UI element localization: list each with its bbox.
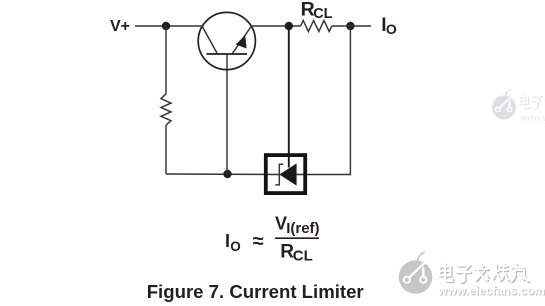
equation IO ~ VI(ref)/RCL (225, 213, 320, 264)
wire: V+ to transistor emitter lead (135, 25, 202, 27)
transistor Q1 base bar (207, 53, 248, 55)
svg-text:CL: CL (313, 6, 332, 22)
svg-text:www.elecfans.com: www.elecfans.com (437, 284, 545, 298)
wire: RCL to IO terminal (332, 25, 371, 27)
resistor RCL (horizontal zigzag) (301, 21, 332, 32)
transistor Q1 emitter lead (right diagonal) (232, 26, 252, 54)
label IO (381, 15, 397, 37)
svg-text:O: O (230, 239, 241, 254)
wire: reference lead from RCL left node down into regulator box (288, 26, 290, 168)
watermark bottom-right: chinese text 电子发烧友 (stylized strokes, embossed) (440, 264, 530, 284)
shunt regulator U1 diode triangle (279, 163, 296, 185)
resistor R1 (left bias resistor, vertical zigzag) (161, 94, 171, 125)
junction node: RCL right (346, 22, 354, 30)
watermark mid-right: chinese text (stylized strokes, lighter, clipped) (520, 95, 545, 109)
watermark mid-right: elecfans logo (small, lighter) (492, 90, 516, 120)
watermark bottom-right: www.elecfans.com (embossed) (437, 284, 545, 299)
wire: transistor base down to bottom rail (226, 54, 228, 174)
wire: left rail upper segment (165, 26, 167, 94)
label RCL (301, 0, 333, 22)
junction node at V+ rail (162, 22, 170, 30)
svg-text:O: O (386, 21, 397, 37)
junction node at transistor base / bottom rail (223, 170, 231, 178)
wire: transistor emitter to RCL (252, 25, 301, 27)
watermark bottom-right: elecfans logo (399, 253, 433, 294)
svg-text:I(ref): I(ref) (286, 220, 319, 237)
wire: bottom rail left (to reference diode cathode) (166, 173, 279, 176)
transistor Q1 circle (198, 12, 255, 69)
watermark mid-right: www.elecfans (embossed, clipped) (518, 112, 545, 123)
junction node: RCL left (285, 22, 293, 30)
wire: left rail lower segment (165, 125, 167, 174)
shunt regulator U1 box (266, 155, 305, 193)
svg-text:www.elecfans.com: www.elecfans.com (518, 112, 545, 122)
transistor Q1 emitter arrow (PNP, pointing to base) (236, 35, 247, 48)
svg-text:Figure 7. Current Limiter: Figure 7. Current Limiter (147, 281, 364, 302)
wire: bottom rail right segment and right rail up to RCL right node (297, 26, 351, 175)
transistor Q1 collector lead (left diagonal) (202, 26, 218, 54)
svg-text:≈: ≈ (253, 231, 264, 253)
svg-text:V+: V+ (110, 18, 130, 35)
shunt regulator U1 cathode bar with hooks (275, 164, 283, 185)
svg-text:CL: CL (293, 247, 313, 264)
